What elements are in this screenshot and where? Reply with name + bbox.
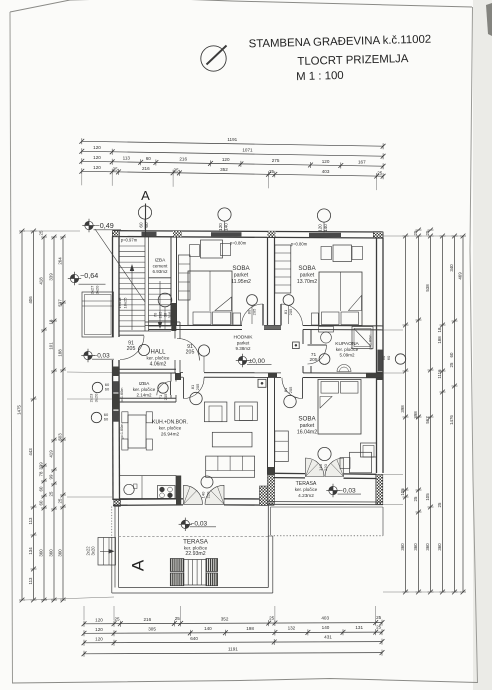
room label SOBA3 bbox=[297, 416, 317, 436]
svg-text:60: 60 bbox=[38, 486, 43, 491]
svg-text:parket: parket bbox=[234, 273, 249, 279]
stair break diagonal leader bbox=[95, 229, 145, 302]
left dim chain 4 bbox=[48, 235, 57, 603]
svg-text:25: 25 bbox=[413, 496, 418, 501]
section mark A top bbox=[141, 188, 150, 237]
svg-text:216: 216 bbox=[143, 617, 151, 622]
right dim chain 2 bbox=[413, 228, 422, 595]
elevation -0,03 entrance bbox=[81, 349, 114, 362]
wall HALL-IZBA2 bbox=[119, 369, 176, 373]
svg-text:99: 99 bbox=[48, 474, 53, 479]
svg-text:SOBA: SOBA bbox=[232, 265, 250, 272]
svg-text:−0,03: −0,03 bbox=[191, 520, 208, 527]
svg-text:p=0.80m: p=0.80m bbox=[291, 242, 308, 247]
living armchair 2 bbox=[235, 402, 257, 421]
wall SOBA1-SOBA2 bbox=[268, 237, 275, 326]
staircase two flights bbox=[119, 246, 171, 331]
svg-text:113: 113 bbox=[123, 156, 131, 161]
porch stair label 2x27 bbox=[90, 285, 100, 294]
right dim chain 5 bbox=[449, 234, 458, 595]
svg-text:11.95m2: 11.95m2 bbox=[231, 279, 251, 285]
living sofa bbox=[206, 456, 255, 477]
svg-text:60: 60 bbox=[386, 355, 391, 360]
svg-text:A: A bbox=[141, 188, 150, 203]
svg-text:360: 360 bbox=[400, 543, 405, 551]
svg-text:16x18: 16x18 bbox=[117, 297, 122, 309]
column marker hodnik east bbox=[293, 342, 300, 349]
big terrace outline bbox=[112, 506, 273, 594]
wall stairs/IZBA divider bbox=[145, 237, 149, 332]
svg-text:1071: 1071 bbox=[242, 148, 253, 153]
svg-text:134: 134 bbox=[28, 547, 33, 555]
svg-text:25: 25 bbox=[376, 615, 382, 620]
wall steps label 2x23 bbox=[89, 393, 99, 402]
svg-text:ker. pločice: ker. pločice bbox=[147, 355, 170, 360]
soba2 double bed bbox=[312, 272, 363, 326]
living coffee table bbox=[212, 432, 252, 447]
svg-text:25: 25 bbox=[175, 616, 181, 621]
svg-text:188: 188 bbox=[437, 336, 442, 344]
top dimension chains bbox=[79, 137, 385, 179]
west exterior wall with windows and door gap bbox=[113, 237, 121, 507]
svg-text:4.06m2: 4.06m2 bbox=[150, 361, 167, 367]
svg-text:538: 538 bbox=[425, 284, 430, 292]
svg-text:A: A bbox=[129, 559, 148, 571]
svg-text:264: 264 bbox=[57, 257, 62, 265]
svg-text:25: 25 bbox=[377, 171, 383, 176]
wall HALL top bbox=[145, 322, 180, 326]
svg-text:1476: 1476 bbox=[449, 415, 454, 425]
svg-text:419: 419 bbox=[48, 450, 53, 458]
wall IZBA-SOBA1 bbox=[171, 237, 177, 332]
svg-text:167: 167 bbox=[358, 159, 366, 164]
svg-text:ker. pločice: ker. pločice bbox=[184, 545, 208, 550]
svg-text:316: 316 bbox=[167, 311, 172, 318]
svg-text:p=0.97m: p=0.97m bbox=[121, 238, 138, 243]
soba3 desk and chair bbox=[340, 452, 372, 473]
soba3 bed bbox=[318, 380, 361, 435]
svg-text:6.93m2: 6.93m2 bbox=[152, 269, 168, 274]
soba1 double bed bbox=[188, 271, 241, 325]
svg-text:120: 120 bbox=[317, 224, 322, 232]
svg-text:398: 398 bbox=[400, 405, 405, 413]
svg-text:398: 398 bbox=[413, 411, 418, 419]
elevation -0,03 big terrace bbox=[179, 518, 216, 531]
svg-text:25: 25 bbox=[114, 617, 120, 622]
svg-text:443: 443 bbox=[28, 448, 33, 456]
room label HALL bbox=[147, 350, 170, 368]
svg-text:60: 60 bbox=[144, 222, 149, 228]
svg-text:120: 120 bbox=[95, 627, 103, 632]
terrace staircase down bbox=[170, 559, 217, 586]
wall IZBA2-KUH bbox=[120, 398, 177, 402]
door 91/205 entrance west bbox=[120, 335, 150, 359]
svg-text:4.23m2: 4.23m2 bbox=[298, 493, 314, 498]
svg-text:140: 140 bbox=[322, 625, 330, 630]
svg-text:25: 25 bbox=[269, 616, 275, 621]
bath shower bbox=[352, 327, 373, 349]
svg-text:25: 25 bbox=[57, 498, 62, 503]
svg-text:220: 220 bbox=[323, 463, 328, 470]
svg-text:101: 101 bbox=[48, 342, 53, 350]
door 80/205 soba1 bbox=[242, 295, 264, 326]
stair tread labels bbox=[117, 297, 128, 309]
door 140/220 kitchen-terrace bbox=[184, 476, 225, 504]
west steps label 2x22 bbox=[86, 546, 96, 556]
right dim chain 4 bbox=[437, 234, 446, 595]
svg-text:140: 140 bbox=[223, 223, 228, 231]
bath sink bbox=[337, 365, 351, 372]
window marker 60/60 east bath bbox=[381, 354, 405, 364]
wall rooms-HODNIK bbox=[149, 326, 384, 330]
svg-text:SOBA: SOBA bbox=[298, 265, 316, 272]
svg-text:305: 305 bbox=[148, 627, 156, 632]
east terrace lower dashed area bbox=[271, 507, 384, 536]
right dim chain 1 bbox=[400, 234, 409, 595]
bottom dimension chains bbox=[82, 615, 385, 657]
svg-text:220: 220 bbox=[206, 491, 211, 498]
svg-text:78: 78 bbox=[38, 471, 43, 476]
svg-text:parket: parket bbox=[300, 423, 315, 429]
svg-text:640: 640 bbox=[190, 636, 198, 641]
svg-text:120: 120 bbox=[93, 165, 101, 170]
svg-text:403: 403 bbox=[321, 616, 329, 621]
room label TERASA big bbox=[183, 539, 209, 558]
svg-text:352: 352 bbox=[220, 167, 228, 172]
svg-text:340: 340 bbox=[449, 264, 454, 272]
svg-text:360: 360 bbox=[437, 543, 442, 551]
window marker 60/60 north bbox=[138, 206, 151, 230]
svg-text:25: 25 bbox=[48, 491, 53, 496]
svg-text:360: 360 bbox=[425, 543, 430, 551]
right dim chain 3 bbox=[425, 228, 434, 595]
svg-text:503: 503 bbox=[57, 433, 62, 441]
south wall of kitchen with terrace door opening bbox=[113, 476, 274, 506]
soba3 wardrobe bbox=[275, 431, 289, 462]
svg-text:120: 120 bbox=[322, 159, 330, 164]
svg-text:216: 216 bbox=[142, 166, 150, 171]
svg-text:537: 537 bbox=[57, 299, 62, 307]
scanner margin right of page edge bbox=[473, 0, 492, 690]
svg-text:25: 25 bbox=[376, 625, 382, 630]
svg-text:25: 25 bbox=[174, 167, 180, 172]
svg-text:131: 131 bbox=[355, 625, 363, 630]
room label TERASA east bbox=[295, 481, 318, 498]
svg-text:339: 339 bbox=[48, 273, 53, 281]
svg-text:3x20: 3x20 bbox=[95, 285, 100, 294]
left dim chain 2 bbox=[28, 229, 37, 603]
svg-text:360: 360 bbox=[48, 549, 53, 557]
svg-text:406: 406 bbox=[28, 296, 33, 304]
north exterior wall with windows bbox=[113, 231, 384, 238]
svg-text:360: 360 bbox=[57, 549, 62, 557]
svg-text:ker. pločice: ker. pločice bbox=[133, 387, 156, 392]
svg-text:SOBA: SOBA bbox=[298, 416, 316, 423]
svg-text:parket: parket bbox=[237, 340, 250, 345]
elevation -0,03 east terrace bbox=[326, 484, 361, 497]
svg-text:22.93m2: 22.93m2 bbox=[185, 551, 205, 557]
svg-text:205: 205 bbox=[127, 346, 136, 352]
kitchen counter bbox=[120, 476, 177, 499]
svg-text:1191: 1191 bbox=[227, 137, 237, 142]
svg-text:113: 113 bbox=[28, 577, 33, 585]
svg-text:469: 469 bbox=[457, 272, 462, 280]
elevation -0,49 bbox=[82, 219, 121, 232]
svg-text:120: 120 bbox=[95, 637, 103, 642]
room label SOBA1 bbox=[231, 265, 251, 285]
svg-text:parket: parket bbox=[300, 273, 315, 279]
door 81/205 soba2 bbox=[281, 295, 303, 326]
soba2 wardrobe bbox=[275, 245, 291, 293]
svg-text:±0,00: ±0,00 bbox=[249, 358, 266, 365]
svg-text:25: 25 bbox=[269, 169, 275, 174]
svg-text:1475: 1475 bbox=[16, 405, 21, 415]
svg-text:1116: 1116 bbox=[437, 369, 442, 379]
svg-text:p=1.80m: p=1.80m bbox=[369, 335, 373, 350]
svg-text:120: 120 bbox=[93, 145, 101, 150]
west outside steps bbox=[98, 538, 116, 566]
svg-text:−0,49: −0,49 bbox=[96, 221, 114, 230]
svg-text:205: 205 bbox=[309, 357, 317, 363]
entrance porch bbox=[82, 292, 114, 337]
page frame top edge bbox=[10, 0, 472, 12]
svg-text:105: 105 bbox=[425, 493, 430, 501]
svg-text:120: 120 bbox=[218, 223, 223, 231]
svg-text:18: 18 bbox=[437, 327, 442, 332]
svg-text:ker. pločice: ker. pločice bbox=[295, 487, 318, 492]
svg-text:60: 60 bbox=[105, 387, 110, 392]
svg-text:2.14m2: 2.14m2 bbox=[136, 393, 152, 398]
left dim chain 5 bbox=[57, 235, 66, 603]
svg-text:140: 140 bbox=[323, 224, 328, 232]
svg-text:ker. pločice: ker. pločice bbox=[159, 425, 182, 430]
svg-text:p=0.80m: p=0.80m bbox=[230, 241, 247, 246]
door 81/205 hodnik-kuh bbox=[184, 377, 205, 404]
room label SOBA2 bbox=[297, 265, 317, 285]
window marker 120/140 north-2 bbox=[317, 209, 330, 233]
wall living-SOBA3 bbox=[268, 377, 275, 475]
kitchen stove bbox=[158, 486, 176, 499]
wall HALL-HODNIK bbox=[175, 322, 181, 380]
svg-text:cement: cement bbox=[153, 263, 169, 268]
top dim extension lines bbox=[82, 174, 377, 190]
svg-text:3x20: 3x20 bbox=[94, 393, 99, 402]
living armchair 1 bbox=[204, 402, 227, 422]
svg-text:25: 25 bbox=[425, 230, 430, 235]
window marker 60/60 west upper bbox=[92, 382, 110, 393]
svg-text:1191: 1191 bbox=[228, 646, 238, 651]
door 71/205 bathroom bbox=[308, 345, 330, 364]
svg-text:60: 60 bbox=[104, 417, 109, 422]
svg-text:120: 120 bbox=[222, 157, 230, 162]
door 70/205 izba1 stairs bbox=[153, 293, 173, 330]
dining table and chairs bbox=[122, 412, 153, 450]
wall bathroom left bbox=[303, 330, 311, 373]
door 140/220 soba3-terrace bbox=[306, 447, 344, 476]
column marker with dot bbox=[258, 379, 266, 387]
wall IZBA2 right bbox=[171, 373, 176, 402]
svg-text:431: 431 bbox=[324, 635, 332, 640]
svg-text:13.70m2: 13.70m2 bbox=[297, 279, 317, 285]
svg-text:26.94m2: 26.94m2 bbox=[161, 431, 180, 436]
svg-text:132: 132 bbox=[288, 626, 296, 631]
svg-text:360: 360 bbox=[413, 543, 418, 551]
svg-text:339: 339 bbox=[38, 462, 43, 470]
svg-text:205: 205 bbox=[163, 393, 168, 400]
svg-text:16.04m2: 16.04m2 bbox=[297, 430, 317, 436]
elevation +-0,00 hodnik bbox=[236, 354, 272, 367]
svg-text:113: 113 bbox=[28, 517, 33, 525]
svg-text:9.38m2: 9.38m2 bbox=[235, 346, 251, 351]
section mark A bottom bbox=[129, 559, 148, 571]
svg-text:188: 188 bbox=[57, 349, 62, 357]
svg-text:403: 403 bbox=[322, 169, 330, 174]
svg-text:140: 140 bbox=[204, 626, 212, 631]
svg-text:25: 25 bbox=[113, 166, 119, 171]
soba3 armchair east bbox=[361, 443, 377, 457]
svg-text:−0,03: −0,03 bbox=[339, 487, 356, 494]
soba2 table and chairs bbox=[321, 245, 363, 262]
svg-text:M 1 : 100: M 1 : 100 bbox=[296, 70, 344, 83]
svg-text:p=1.60m: p=1.60m bbox=[120, 388, 124, 403]
room label IZBA1 bbox=[152, 258, 168, 275]
svg-text:216: 216 bbox=[179, 156, 187, 161]
bath wc bbox=[319, 327, 334, 344]
left dim chain 3 bbox=[38, 230, 47, 602]
soba1 table and chairs bbox=[190, 240, 231, 258]
svg-text:p=1.60m: p=1.60m bbox=[120, 424, 124, 439]
bottom dim extension lines bbox=[84, 606, 376, 620]
page frame left edge bbox=[10, 12, 13, 683]
window marker 60/60 west lower bbox=[91, 412, 109, 423]
svg-text:25: 25 bbox=[413, 230, 418, 235]
svg-text:71: 71 bbox=[311, 352, 317, 358]
svg-text:275: 275 bbox=[272, 158, 280, 163]
svg-text:352: 352 bbox=[221, 616, 229, 621]
svg-text:360: 360 bbox=[38, 549, 43, 557]
svg-text:60: 60 bbox=[38, 500, 43, 505]
svg-text:60: 60 bbox=[146, 156, 152, 161]
svg-text:60: 60 bbox=[449, 352, 454, 357]
room label KUH bbox=[152, 420, 188, 437]
door 91/205 hall-hodnik bbox=[178, 339, 210, 373]
page frame bottom edge bbox=[12, 679, 478, 684]
svg-text:3x20: 3x20 bbox=[91, 546, 96, 556]
door 81/205 hodnik-soba3 bbox=[282, 378, 303, 408]
svg-text:120: 120 bbox=[93, 155, 101, 160]
wall HODNIK-KUH/SOBA3 bbox=[180, 373, 383, 378]
svg-text:205: 205 bbox=[195, 383, 200, 390]
svg-text:18: 18 bbox=[48, 319, 53, 324]
room label IZBA2 bbox=[133, 381, 156, 398]
soba1 wardrobe bbox=[179, 255, 191, 300]
left extension lines bbox=[24, 231, 114, 600]
svg-text:25: 25 bbox=[437, 502, 442, 507]
svg-text:25: 25 bbox=[449, 362, 454, 367]
right dim chain 6 bbox=[457, 234, 466, 595]
svg-text:ker. pločice: ker. pločice bbox=[336, 347, 359, 352]
svg-text:205: 205 bbox=[288, 386, 293, 393]
room label HODNIK bbox=[233, 335, 253, 352]
page frame right edge bbox=[470, 7, 478, 683]
svg-text:198: 198 bbox=[246, 626, 254, 631]
svg-text:105: 105 bbox=[400, 488, 405, 496]
right extension lines bbox=[383, 236, 461, 592]
left dim chain 1 (total 1475) bbox=[16, 229, 25, 603]
elevation -0,64 bbox=[68, 271, 106, 285]
svg-text:418: 418 bbox=[38, 277, 43, 285]
svg-text:5.09m2: 5.09m2 bbox=[339, 353, 355, 358]
door 71/205 izba2 bbox=[157, 382, 171, 401]
north arrow circle bbox=[201, 46, 227, 72]
svg-text:205: 205 bbox=[186, 350, 195, 356]
room label KUPAONA bbox=[335, 341, 359, 358]
east exterior wall with bath window bbox=[376, 238, 383, 505]
svg-text:18x25: 18x25 bbox=[123, 297, 128, 309]
svg-text:60: 60 bbox=[138, 222, 143, 228]
svg-text:120: 120 bbox=[95, 618, 103, 623]
window marker 120/140 north-1 bbox=[218, 208, 231, 232]
scan shadow top-right corner bbox=[486, 3, 492, 36]
svg-text:−0,03: −0,03 bbox=[94, 353, 111, 360]
svg-text:−0,64: −0,64 bbox=[80, 271, 98, 280]
south wall of SOBA3 and east terrace edge bbox=[268, 473, 384, 504]
svg-text:567: 567 bbox=[425, 416, 430, 424]
